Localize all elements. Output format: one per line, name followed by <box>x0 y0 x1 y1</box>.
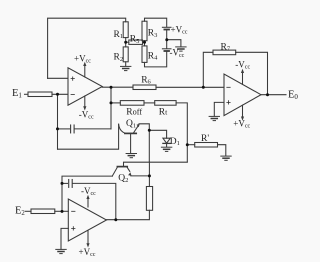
wire R7 loop <box>203 52 213 87</box>
op-amp U2 <box>224 74 261 116</box>
resistor R2 <box>123 47 128 62</box>
wire Q1 emitter to vertical bus <box>139 124 149 162</box>
svg-text:R2: R2 <box>114 53 124 63</box>
wire U3 +Vcc arrow <box>87 231 89 245</box>
wire U2 output to E0 <box>261 94 286 96</box>
transistor Q2 <box>112 167 131 176</box>
resistor R3 <box>142 21 147 41</box>
node dots <box>56 38 269 221</box>
resistor R' <box>195 143 218 148</box>
wire vertical bus to resistor R <box>148 162 150 187</box>
node R' junction <box>186 143 189 146</box>
ground at battery midpoint <box>176 47 186 51</box>
node Q2 emitter junction <box>148 174 151 177</box>
capacitor C2 <box>69 180 73 188</box>
node U2 inverting input <box>202 86 205 89</box>
wire U2 noninverting input to ground <box>214 102 224 116</box>
op-amp U1 <box>68 68 102 105</box>
wire C2 left lead <box>62 182 68 184</box>
svg-text:R4: R4 <box>148 51 158 61</box>
wire battery midpoint <box>166 30 168 49</box>
node U2 output <box>266 93 269 96</box>
svg-text:Q1: Q1 <box>126 119 136 129</box>
node U3 inverting input <box>61 210 64 213</box>
label U1 plus input <box>71 77 75 81</box>
resistor Rt <box>155 101 176 106</box>
wire R3 top rail to +Vcc battery <box>145 18 167 27</box>
wire feedback loop top rail to R1 <box>48 18 126 78</box>
label U3 plus input <box>71 226 75 230</box>
svg-text:E0: E0 <box>288 90 298 102</box>
svg-text:R7: R7 <box>221 42 231 52</box>
resistor R1 <box>123 22 128 38</box>
wire Roff to Rt <box>144 102 155 104</box>
ground below R2 <box>121 66 131 70</box>
resistor R7 <box>213 50 236 55</box>
wire U1 +Vcc arrow <box>84 65 86 78</box>
wire R7 to U2 output <box>236 52 268 94</box>
resistor E2 input <box>31 209 55 214</box>
resistor R4 <box>142 46 147 63</box>
svg-text:E2: E2 <box>15 206 25 218</box>
svg-text:Rt: Rt <box>159 108 168 118</box>
wire U1 -Vcc arrow <box>84 96 86 108</box>
node U1 output <box>110 86 113 89</box>
svg-text:-Vcc: -Vcc <box>79 109 94 120</box>
ground below Q1 base <box>126 154 136 158</box>
wire C1 right lead <box>75 128 111 130</box>
svg-text:R5: R5 <box>130 35 140 45</box>
wire R3 to R4 node B <box>144 41 146 46</box>
svg-text:R3: R3 <box>148 29 158 39</box>
node U1 inverting input <box>56 93 59 96</box>
wire U1 inverting node down <box>57 94 59 149</box>
wire R' right to ground <box>218 145 226 156</box>
svg-text:E1: E1 <box>12 88 22 100</box>
battery -Vcc <box>162 49 171 51</box>
wire R4 bottom rail to battery minus <box>145 51 167 67</box>
svg-text:+Vcc: +Vcc <box>79 247 96 258</box>
svg-text:-Vcc: -Vcc <box>235 59 250 70</box>
label U2 plus input <box>226 100 230 104</box>
ground below U2 input <box>209 116 219 120</box>
wire R2 to ground <box>125 62 127 66</box>
wire Roff left lead <box>111 102 120 104</box>
svg-text:D1: D1 <box>170 137 180 147</box>
wire U2 -Vcc arrow <box>242 72 244 85</box>
transistor Q1 <box>119 124 140 153</box>
wire E1 resistor to op-amp U1 inverting input <box>52 93 68 95</box>
svg-text:R1: R1 <box>114 30 124 40</box>
node U3 output <box>114 218 117 221</box>
node C1 junction <box>56 127 59 130</box>
wire U1 output <box>102 86 133 88</box>
ground below U3 input <box>56 249 66 253</box>
node battery midpoint <box>165 38 168 41</box>
svg-text:Roff: Roff <box>126 108 142 118</box>
resistor R6 <box>133 85 156 90</box>
wire C2 right lead to U3 output <box>73 183 116 219</box>
wire E2 resistor to op-amp U3 inverting input <box>55 210 69 212</box>
wire C1 left lead <box>58 128 70 130</box>
node Roff junction <box>110 101 113 104</box>
wire node to diode D1 <box>149 130 166 138</box>
svg-text:-Vcc: -Vcc <box>81 186 96 197</box>
wire U3 -Vcc arrow <box>87 198 89 208</box>
wire Q2 emitter to vertical bus <box>131 175 150 177</box>
node C2 junction <box>61 182 64 185</box>
op-amp U3 <box>68 199 106 241</box>
wire Q1 collector run <box>58 124 119 149</box>
resistor Roff <box>120 101 144 106</box>
wire U3 noninverting input to ground <box>61 228 68 249</box>
svg-text:+Vcc: +Vcc <box>171 24 188 35</box>
svg-text:+Vcc: +Vcc <box>233 119 250 130</box>
svg-text:R6: R6 <box>141 75 151 85</box>
svg-text:+Vcc: +Vcc <box>74 53 91 64</box>
wire U2 +Vcc arrow <box>242 105 244 118</box>
wire R6 to op-amp U2 inverting input <box>156 86 224 88</box>
wire resistor R bottom to U3 output <box>107 210 150 219</box>
node R3-R4 junction <box>143 41 146 44</box>
resistor E1 input <box>28 92 52 97</box>
battery +Vcc <box>162 27 171 29</box>
diode D1 <box>163 138 170 147</box>
wire R1 to node A <box>125 38 127 47</box>
ground below D1 <box>161 147 171 151</box>
node Q1 emitter junction <box>148 129 151 132</box>
wire R5 to node B <box>143 41 145 43</box>
wire midpoint tap to ground <box>167 40 181 47</box>
resistor R5 <box>129 40 143 44</box>
wire Rt right to vertical bus <box>176 103 187 162</box>
wire E2 lead <box>26 210 32 212</box>
wire U1 output down to Roff and C1 <box>110 87 112 129</box>
label U2 minus input <box>226 86 230 88</box>
wire E1 lead <box>25 93 29 95</box>
wire Q2 collector to op-amp U3 input node <box>62 176 112 211</box>
resistor R vertical <box>146 187 152 211</box>
capacitor C1 <box>71 125 75 133</box>
wire R' left lead <box>187 144 194 146</box>
node R1-R2 junction <box>124 41 127 44</box>
ground below R' <box>221 156 231 160</box>
wire op-amp U1 noninverting input <box>48 77 68 79</box>
svg-text:Q2: Q2 <box>118 174 128 184</box>
svg-text:R': R' <box>201 134 209 144</box>
wire node A to R5 <box>126 41 129 43</box>
label U3 minus input <box>71 210 75 212</box>
label U1 minus input <box>71 93 75 95</box>
wire bus y162 Q2 base to R' bus <box>124 162 188 166</box>
